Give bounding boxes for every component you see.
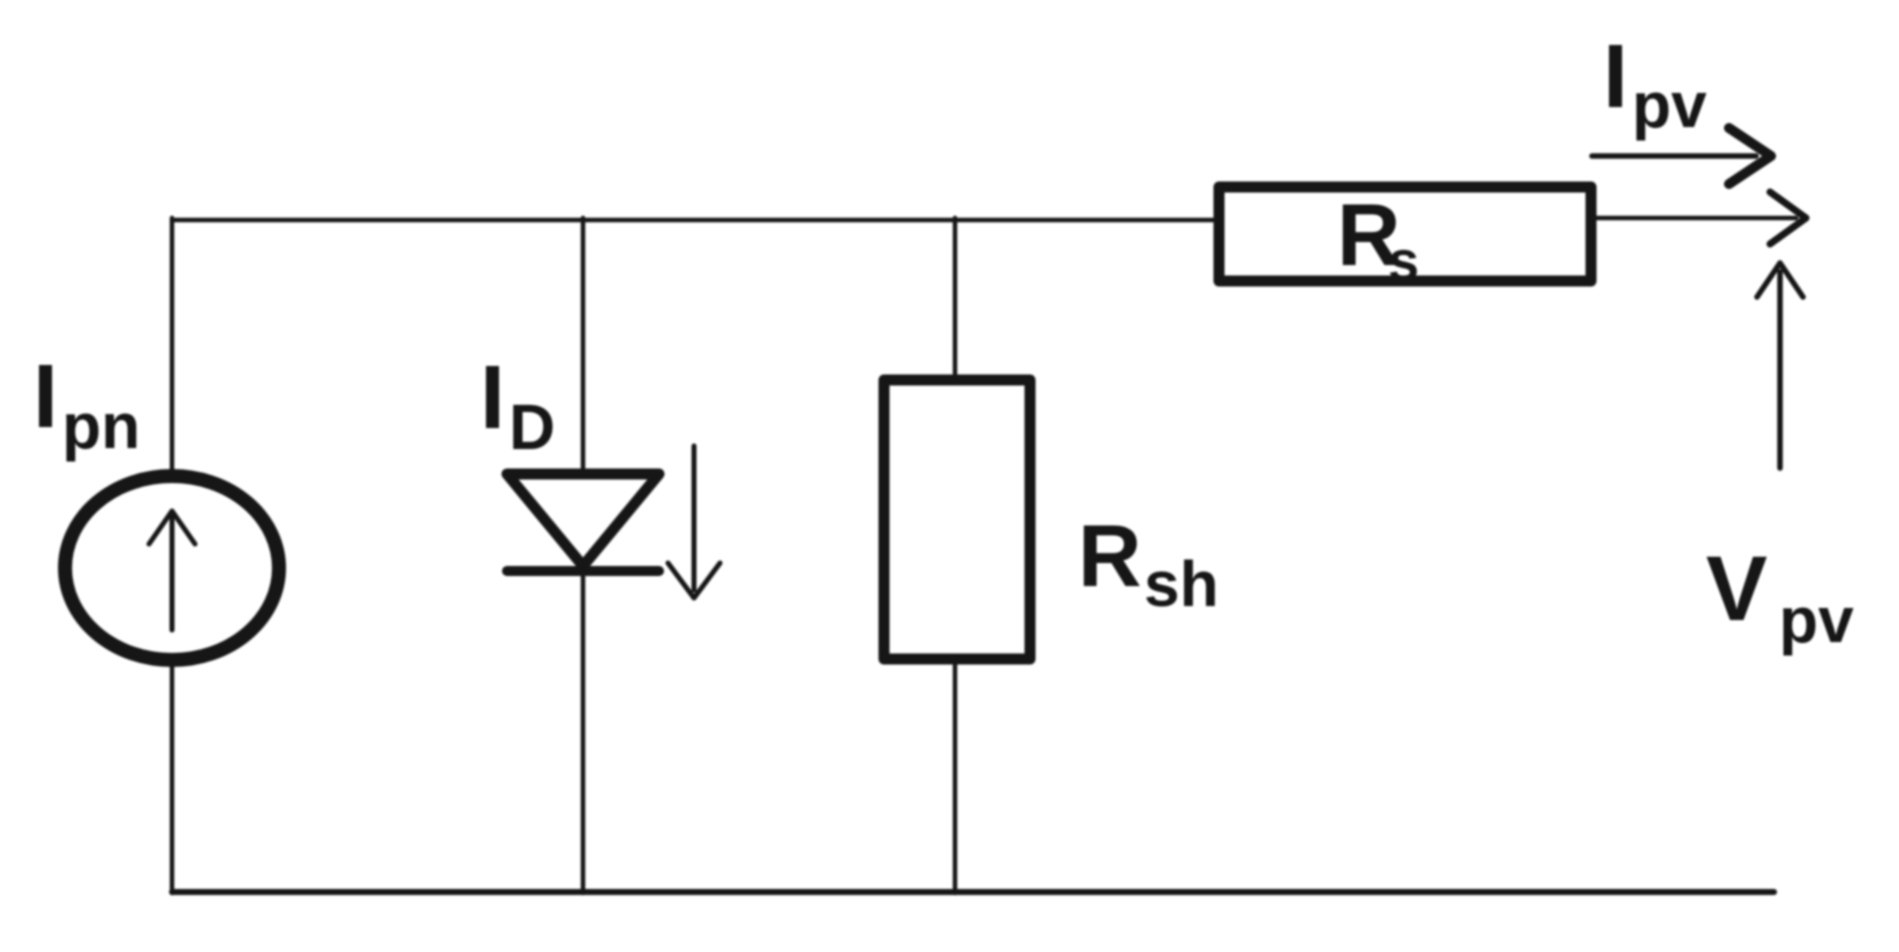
wire left vertical top lead	[170, 218, 175, 471]
label Rsh	[1078, 506, 1219, 620]
wire diode branch bottom	[581, 569, 586, 893]
wire bottom bus	[172, 889, 1774, 895]
current source Ipn	[65, 476, 279, 660]
wire diode branch top	[581, 218, 586, 474]
svg-text:D: D	[509, 391, 555, 463]
label Rs	[1337, 185, 1419, 292]
arrow ID current direction	[668, 446, 720, 598]
wire top bus	[172, 218, 1216, 223]
svg-text:s: s	[1388, 229, 1419, 292]
svg-text:pv: pv	[1632, 69, 1707, 141]
wire left vertical bottom lead	[170, 665, 175, 893]
label Ipv	[1603, 27, 1707, 141]
resistor Rsh	[884, 380, 1030, 659]
svg-text:I: I	[1603, 27, 1628, 127]
label Vpv	[1706, 538, 1854, 656]
resistor Rs	[1219, 187, 1591, 281]
svg-text:I: I	[33, 347, 58, 447]
svg-text:I: I	[480, 348, 505, 448]
diode D1	[507, 474, 659, 571]
wire Rsh branch bottom	[953, 659, 958, 893]
svg-text:R: R	[1078, 506, 1142, 605]
svg-text:pv: pv	[1779, 584, 1854, 656]
arrow Ipv	[1592, 128, 1771, 184]
arrow Vpv	[1757, 263, 1803, 468]
svg-text:pn: pn	[62, 390, 140, 462]
wire Rs output	[1591, 216, 1796, 221]
svg-text:V: V	[1706, 538, 1767, 640]
label Ipn	[33, 347, 140, 462]
label ID	[480, 348, 555, 463]
svg-text:sh: sh	[1144, 548, 1219, 620]
arrowhead Ipv output node	[1770, 192, 1806, 244]
wire Rsh branch top	[953, 218, 958, 380]
